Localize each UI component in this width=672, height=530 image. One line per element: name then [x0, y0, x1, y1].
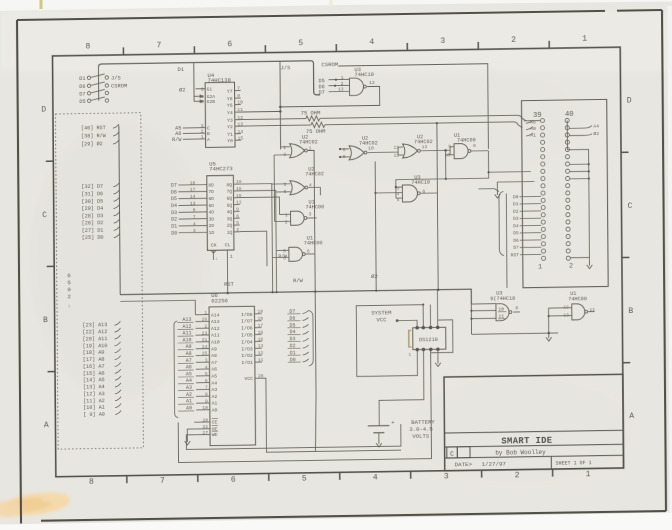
resistor R2 75 OHM — [311, 122, 325, 127]
svg-text:Y4: Y4 — [227, 110, 233, 116]
svg-text:[ 9] A0: [ 9] A0 — [83, 412, 105, 418]
wire: U2c out to U2d — [368, 151, 399, 153]
wire: jumper rail to CSROM bus (top horizontal) — [98, 61, 320, 99]
svg-text:8Q: 8Q — [226, 182, 232, 188]
svg-text:C: C — [450, 451, 454, 458]
svg-text:74HC00: 74HC00 — [306, 204, 325, 210]
svg-text:[14] A5: [14] A5 — [83, 377, 105, 383]
dashed CPU socket outline — [55, 113, 143, 449]
data bus bracket at connector — [499, 191, 504, 255]
svg-text:5: 5 — [302, 474, 307, 483]
svg-text:7D: 7D — [208, 189, 214, 195]
svg-text:[16] A7: [16] A7 — [83, 364, 105, 370]
svg-text:18: 18 — [190, 180, 196, 186]
svg-text:A11: A11 — [211, 333, 220, 339]
svg-text:D1: D1 — [513, 201, 519, 207]
outer border frame — [17, 11, 605, 20]
A-label left bracket — [174, 321, 178, 418]
svg-text:R/W: R/W — [172, 137, 182, 143]
svg-text:A13: A13 — [211, 319, 220, 325]
svg-text:[13] A4: [13] A4 — [83, 384, 105, 390]
svg-text:D0: D0 — [513, 194, 519, 200]
svg-text:12: 12 — [236, 200, 242, 206]
svg-text:A1: A1 — [186, 398, 192, 404]
svg-text:8: 8 — [85, 42, 90, 51]
svg-text:D2: D2 — [513, 209, 519, 215]
svg-text:4: 4 — [397, 191, 400, 197]
svg-text:17: 17 — [258, 323, 264, 329]
svg-text:5: 5 — [236, 220, 239, 226]
svg-text:2: 2 — [285, 219, 288, 225]
svg-text:D7: D7 — [319, 90, 325, 96]
svg-text:7: 7 — [160, 477, 165, 486]
revision box C — [447, 447, 458, 458]
svg-text:A5: A5 — [186, 371, 192, 377]
svg-text:16: 16 — [258, 330, 264, 336]
svg-text:D1: D1 — [177, 66, 184, 73]
svg-text:3Q: 3Q — [227, 216, 233, 222]
svg-text:[22] A12: [22] A12 — [82, 329, 107, 335]
wire: phase net into DS1210 pin4 — [436, 290, 438, 328]
svg-text:D5: D5 — [171, 196, 177, 202]
DS1210 right loop + ground — [431, 320, 453, 353]
svg-text:A: A — [207, 137, 210, 143]
svg-text:A8: A8 — [211, 353, 217, 359]
svg-text:by Bob Woolley: by Bob Woolley — [495, 449, 546, 457]
svg-text:8: 8 — [343, 147, 346, 153]
svg-text:14: 14 — [190, 194, 196, 200]
svg-text:CSROM: CSROM — [111, 83, 127, 89]
IDE connector J2 40-pin — [522, 99, 609, 287]
svg-text:11: 11 — [589, 307, 595, 313]
svg-text:15: 15 — [258, 337, 264, 343]
svg-text:2: 2 — [511, 36, 516, 45]
U3c output stub — [513, 311, 520, 313]
svg-text:3: 3 — [440, 37, 445, 46]
svg-text:13: 13 — [422, 144, 428, 150]
svg-text:13: 13 — [190, 201, 196, 207]
svg-text:0: 0 — [67, 286, 71, 293]
svg-text:D2: D2 — [171, 217, 177, 223]
zone column ticks and digits (top/bottom) — [122, 47, 124, 55]
svg-text:[31] D6: [31] D6 — [81, 191, 103, 197]
svg-text:4Q: 4Q — [227, 209, 233, 215]
svg-text:8: 8 — [515, 305, 518, 311]
svg-text:I/O3: I/O3 — [241, 346, 253, 352]
wire: Y4 to J/S net — [241, 110, 281, 113]
wires: col1 left entries — [524, 120, 541, 122]
jumper common rail — [97, 67, 99, 101]
svg-text:2: 2 — [341, 81, 344, 87]
svg-text:[38] R/W: [38] R/W — [81, 133, 107, 139]
svg-text:5D: 5D — [208, 203, 214, 209]
svg-text:D4: D4 — [513, 223, 519, 229]
svg-text:A12: A12 — [211, 326, 220, 332]
scan white band top — [0, 0, 672, 11]
svg-text:DS1210: DS1210 — [419, 337, 438, 343]
svg-text:1Q: 1Q — [227, 230, 233, 236]
svg-text:A11: A11 — [182, 330, 191, 336]
svg-text:10: 10 — [368, 145, 374, 151]
svg-text:74HC02: 74HC02 — [305, 171, 324, 177]
svg-text:A10: A10 — [183, 337, 192, 343]
svg-text:27: 27 — [202, 430, 208, 436]
svg-text:A0: A0 — [186, 405, 192, 411]
wires: Q outputs down-column nets — [239, 184, 271, 185]
svg-text:[32] D7: [32] D7 — [81, 184, 103, 190]
svg-text:7Q: 7Q — [226, 189, 232, 195]
DS1210 U7 — [413, 327, 446, 349]
wire: A14 pin up — [120, 300, 195, 316]
scan white band bottom — [0, 513, 672, 530]
svg-text:I/O6: I/O6 — [241, 325, 253, 331]
col2 top hooks A4 O2 — [569, 126, 592, 129]
svg-text:A7: A7 — [211, 360, 217, 366]
svg-text:A0: A0 — [530, 126, 536, 132]
svg-text:CK: CK — [211, 242, 217, 248]
svg-text:A2: A2 — [212, 394, 218, 400]
svg-text:C: C — [207, 126, 210, 132]
svg-text:6D: 6D — [208, 196, 214, 202]
svg-text:CSROM: CSROM — [321, 61, 338, 68]
svg-text:1D: 1D — [209, 230, 215, 236]
svg-text:[11] A2: [11] A2 — [83, 398, 105, 404]
svg-text:2D: 2D — [209, 223, 215, 229]
svg-text:40: 40 — [565, 111, 574, 119]
svg-text:13: 13 — [258, 343, 264, 349]
svg-text:D5: D5 — [79, 99, 85, 105]
svg-text:3: 3 — [205, 358, 208, 364]
svg-text:A3: A3 — [186, 385, 192, 391]
svg-text:6: 6 — [422, 189, 425, 195]
svg-text:9: 9 — [237, 93, 240, 99]
svg-text:5: 5 — [284, 182, 287, 188]
wire: U2a out — [308, 150, 315, 291]
svg-text:7: 7 — [156, 41, 161, 50]
svg-text:[27] D1: [27] D1 — [82, 228, 104, 234]
svg-text:6Q: 6Q — [227, 196, 233, 202]
svg-text:17: 17 — [190, 187, 196, 193]
svg-text:1: 1 — [538, 263, 542, 271]
svg-text:I/O4: I/O4 — [241, 339, 253, 345]
svg-text:21: 21 — [202, 337, 208, 343]
svg-text:I/O1: I/O1 — [241, 360, 253, 366]
svg-text:D7: D7 — [171, 183, 177, 189]
wire: Y3 to 75 ohm resistor R1 — [241, 119, 306, 120]
svg-text:Y3: Y3 — [227, 118, 233, 124]
long vertical nets — [437, 124, 438, 290]
svg-text:3: 3 — [397, 186, 400, 192]
svg-text:8: 8 — [193, 207, 196, 213]
svg-text:WE: WE — [212, 432, 218, 438]
svg-text:↓: ↓ — [68, 303, 71, 309]
wire: U1c out joins CSROM vertical — [471, 150, 488, 152]
svg-text:Y0: Y0 — [227, 138, 233, 144]
wire: U3b out to phase vertical — [421, 192, 438, 194]
svg-text:I/O7: I/O7 — [241, 319, 253, 325]
svg-text:A0: A0 — [212, 407, 218, 413]
svg-text:74HC00: 74HC00 — [457, 137, 476, 143]
svg-text:[28] D3: [28] D3 — [82, 213, 104, 219]
svg-text:D3: D3 — [171, 210, 177, 216]
wire: battery net — [379, 350, 424, 426]
svg-text:4: 4 — [193, 221, 196, 227]
svg-text:G2B: G2B — [207, 99, 216, 105]
svg-text:Y1: Y1 — [227, 132, 233, 138]
svg-text:1/27/97: 1/27/97 — [482, 460, 507, 467]
svg-text:1: 1 — [204, 310, 207, 316]
svg-text:A13: A13 — [182, 317, 191, 323]
svg-text:D: D — [41, 106, 46, 115]
svg-text:[15] A6: [15] A6 — [83, 370, 105, 376]
svg-text:62256: 62256 — [211, 297, 228, 304]
wire: R/W vertical — [314, 290, 316, 292]
svg-text:4: 4 — [373, 473, 378, 482]
svg-text:6: 6 — [201, 87, 204, 93]
D-label right bracket — [308, 310, 313, 366]
svg-text:D: D — [627, 97, 632, 106]
svg-text:12: 12 — [258, 350, 264, 356]
svg-text:1: 1 — [582, 35, 587, 44]
svg-text:RST: RST — [511, 252, 520, 258]
svg-text:[40] RST: [40] RST — [81, 125, 106, 131]
svg-text:R/W: R/W — [278, 253, 287, 259]
svg-text:I/O8: I/O8 — [241, 312, 253, 318]
svg-text:[23] A13: [23] A13 — [82, 322, 107, 328]
wire: U2d out to U1c — [421, 149, 450, 151]
svg-text:Ø2: Ø2 — [179, 86, 186, 93]
svg-text:9: 9 — [205, 398, 208, 404]
svg-text:D6: D6 — [79, 84, 85, 90]
svg-text:7: 7 — [193, 214, 196, 220]
svg-text:A12: A12 — [182, 324, 191, 330]
svg-text:10: 10 — [237, 100, 243, 106]
svg-text:A1: A1 — [530, 132, 536, 138]
wire: CSROM long net to right column — [338, 64, 488, 152]
svg-text:J/S: J/S — [280, 64, 291, 71]
wire: long phase/control net — [120, 289, 471, 309]
wire: system vcc to DS1210 pin1 — [397, 320, 417, 327]
svg-text:A3: A3 — [211, 387, 217, 393]
svg-text:↓: ↓ — [215, 256, 218, 262]
svg-text:B: B — [207, 131, 210, 137]
svg-text:8: 8 — [89, 478, 94, 487]
svg-text:DATE>: DATE> — [455, 461, 473, 468]
svg-text:G1: G1 — [207, 87, 213, 93]
svg-text:4: 4 — [369, 38, 374, 47]
yellow tab mark top edge — [40, 0, 43, 9]
svg-text:A10: A10 — [211, 339, 220, 345]
svg-text:74HC10: 74HC10 — [411, 180, 430, 186]
wire: U3 pin12 out, down and left to gate column — [280, 86, 380, 107]
svg-text:22: 22 — [202, 424, 208, 430]
wire: WE / VCC rail — [186, 424, 401, 449]
wire: DS1210 top rail — [356, 305, 423, 377]
wire: CE net to DS1210 CEO — [178, 349, 432, 462]
svg-text:1: 1 — [341, 75, 344, 81]
svg-text:3D: 3D — [209, 216, 215, 222]
svg-text:7: 7 — [205, 385, 208, 391]
svg-text:Ø2: Ø2 — [371, 273, 378, 280]
wire: vertical down to row-2 logic — [396, 151, 489, 187]
svg-text:6: 6 — [67, 272, 71, 279]
U3c input rail + stubs — [470, 304, 472, 334]
svg-text:24: 24 — [202, 344, 208, 350]
svg-text:[30] D5: [30] D5 — [81, 198, 103, 204]
ground (B zone) — [548, 333, 550, 338]
wire: Y2 to 75 ohm resistor R2 — [241, 125, 311, 126]
svg-text:[20] A11: [20] A11 — [83, 336, 108, 342]
svg-text:B: B — [628, 307, 633, 316]
svg-text:15: 15 — [237, 135, 243, 141]
wire: R1 to IDE connector — [320, 115, 526, 124]
svg-text:SHEET 1 OF 1: SHEET 1 OF 1 — [556, 460, 592, 467]
svg-text:[17] A8: [17] A8 — [83, 357, 105, 363]
svg-text:D4: D4 — [171, 203, 177, 209]
svg-text:D6: D6 — [171, 189, 177, 195]
svg-text:7: 7 — [237, 86, 240, 92]
svg-text:25: 25 — [202, 351, 208, 357]
svg-text:Y5: Y5 — [227, 103, 233, 109]
svg-text:2Q: 2Q — [227, 223, 233, 229]
svg-text:A9: A9 — [211, 346, 217, 352]
inner border frame — [52, 47, 623, 477]
svg-text:9: 9 — [236, 207, 239, 213]
svg-text:2: 2 — [201, 129, 204, 135]
svg-text:3: 3 — [309, 211, 312, 217]
scan white band right — [668, 6, 672, 514]
svg-text:VCC: VCC — [244, 376, 253, 382]
U1d input wires — [548, 308, 550, 333]
connector label sub-box edge — [505, 193, 508, 288]
svg-text:D6: D6 — [513, 238, 519, 244]
svg-text:3: 3 — [201, 123, 204, 129]
svg-text:5Q: 5Q — [227, 202, 233, 208]
svg-text:5: 5 — [201, 99, 204, 105]
svg-text:19: 19 — [257, 309, 263, 315]
svg-text:Y2: Y2 — [227, 124, 233, 130]
svg-text:6: 6 — [227, 40, 232, 49]
svg-text:8: 8 — [205, 392, 208, 398]
svg-text:RST: RST — [224, 282, 235, 288]
wire: OE ground — [187, 429, 194, 437]
svg-text:6: 6 — [231, 475, 236, 484]
zone row ticks and letters (left/right) — [46, 160, 54, 162]
svg-text:D3: D3 — [513, 216, 519, 222]
scan tone blotches — [30, 120, 210, 400]
bus rail — [119, 125, 120, 294]
svg-text:A2: A2 — [186, 392, 192, 398]
wire: R2 to IDE connector — [325, 122, 523, 131]
svg-text:[29] D4: [29] D4 — [81, 206, 103, 212]
svg-text:8: 8 — [473, 143, 476, 149]
svg-text:D1: D1 — [171, 224, 177, 230]
svg-text:2: 2 — [236, 227, 239, 233]
ground (mid right) — [496, 190, 498, 195]
svg-text:75 OHM: 75 OHM — [306, 129, 325, 135]
wire: J/S net vertical — [279, 62, 282, 150]
svg-text:12: 12 — [369, 80, 375, 86]
battery B1 — [368, 425, 390, 427]
svg-text:4D: 4D — [209, 210, 215, 216]
svg-text:5: 5 — [298, 39, 303, 48]
wire: bottom common with ground — [472, 333, 559, 334]
svg-text:8D: 8D — [208, 182, 214, 188]
col2 jumper wires — [566, 120, 568, 149]
svg-text:B: B — [43, 316, 48, 325]
svg-text:11: 11 — [258, 357, 264, 363]
svg-text:5: 5 — [67, 279, 71, 286]
coffee stain bottom-left — [1, 489, 71, 518]
svg-text:74HC273: 74HC273 — [209, 165, 233, 172]
svg-text:SMART IDE: SMART IDE — [501, 436, 552, 447]
title block — [444, 374, 624, 470]
svg-text:[26] D2: [26] D2 — [82, 220, 104, 226]
svg-text:2: 2 — [67, 293, 71, 300]
svg-text:74HC00: 74HC00 — [568, 296, 587, 302]
svg-text:20: 20 — [202, 417, 208, 423]
svg-text:2: 2 — [515, 471, 520, 480]
svg-text:3: 3 — [193, 228, 196, 234]
ground (U6 OE) — [186, 437, 188, 442]
svg-text:I/O5: I/O5 — [241, 332, 253, 338]
svg-text:[25] D0: [25] D0 — [82, 235, 104, 241]
svg-text:5: 5 — [205, 371, 208, 377]
svg-text:13: 13 — [338, 87, 344, 93]
svg-text:4: 4 — [205, 364, 208, 370]
svg-text:VOLTS: VOLTS — [412, 433, 429, 440]
U6 address pins A14..A0 — [195, 314, 209, 316]
svg-text:1: 1 — [201, 134, 204, 140]
svg-text:D0: D0 — [171, 230, 177, 236]
svg-text:[12] A3: [12] A3 — [83, 391, 105, 397]
svg-text:6: 6 — [236, 213, 239, 219]
svg-text:D5: D5 — [513, 230, 519, 236]
svg-text:I/O2: I/O2 — [241, 353, 253, 359]
ground (connector col2) — [588, 261, 590, 266]
svg-text:39: 39 — [533, 112, 542, 120]
svg-text:9(74HC10: 9(74HC10 — [490, 296, 515, 302]
connector pin circles — [540, 118, 544, 122]
svg-text:R/W: R/W — [293, 278, 304, 284]
svg-text:D7: D7 — [513, 245, 519, 251]
svg-text:[29] Ø2: [29] Ø2 — [81, 140, 103, 147]
svg-text:D1: D1 — [79, 76, 85, 82]
svg-text:1: 1 — [408, 352, 411, 358]
svg-text:A6: A6 — [186, 364, 192, 370]
svg-text:[19] A10: [19] A10 — [83, 343, 108, 349]
wire: connector return + mid ground — [489, 171, 531, 174]
svg-text:A4: A4 — [593, 123, 599, 129]
svg-text:VCC: VCC — [376, 316, 387, 323]
svg-text:1: 1 — [230, 254, 233, 260]
svg-text:A: A — [44, 421, 49, 430]
svg-text:A9: A9 — [186, 344, 192, 350]
svg-text:Y6: Y6 — [227, 96, 233, 102]
svg-text:OE: OE — [212, 426, 218, 432]
svg-text:A4: A4 — [186, 378, 192, 384]
svg-text:A5: A5 — [211, 373, 217, 379]
svg-text:A14: A14 — [211, 312, 220, 318]
svg-text:A: A — [629, 412, 634, 421]
svg-text:C: C — [42, 211, 47, 220]
svg-text:A8: A8 — [186, 351, 192, 357]
svg-text:[10] A1: [10] A1 — [83, 405, 105, 411]
wire: enable drop to U4 G2 pins — [193, 63, 195, 102]
svg-text:1: 1 — [586, 470, 591, 479]
svg-text:A7: A7 — [186, 358, 192, 364]
svg-text:A1: A1 — [212, 401, 218, 407]
